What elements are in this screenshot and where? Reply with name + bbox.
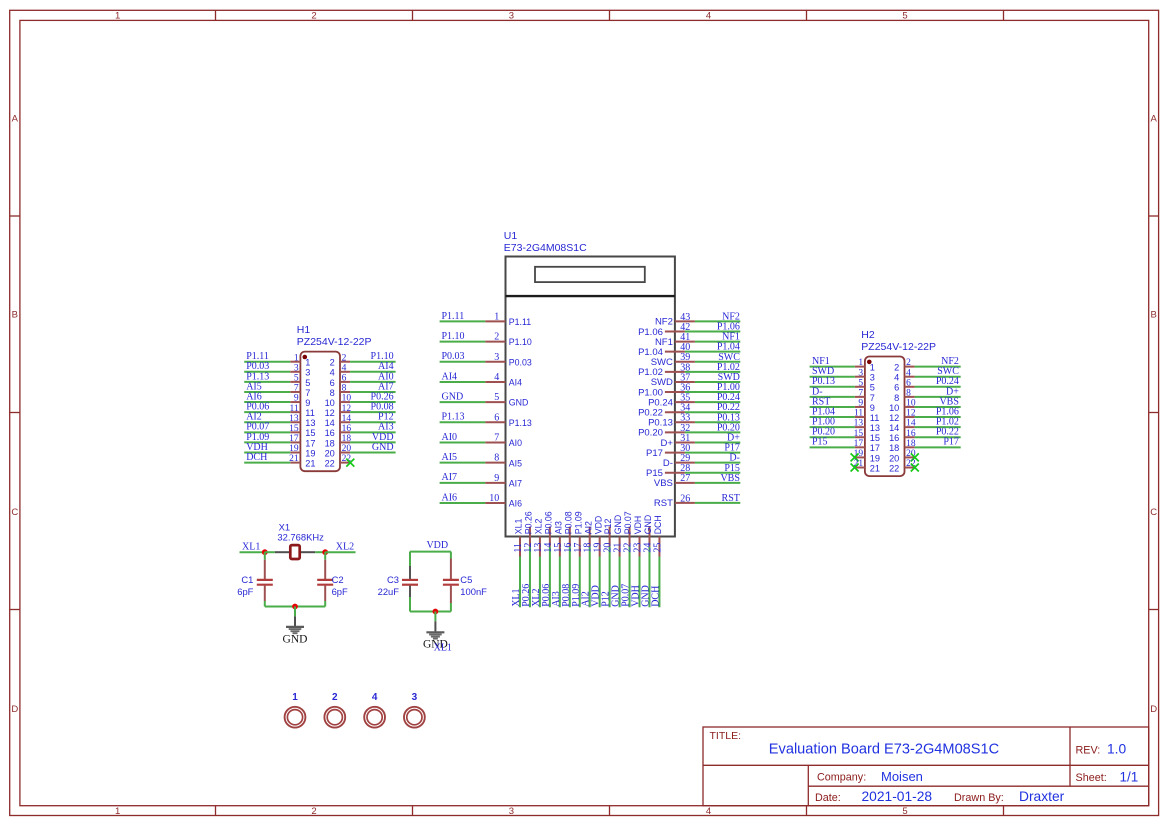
svg-text:16: 16 xyxy=(906,429,916,439)
svg-text:22: 22 xyxy=(889,463,899,473)
wire net P0.20 from U1 pin 32 xyxy=(685,431,740,433)
wire C3 to C5 bottom xyxy=(410,611,451,613)
wire net D+ from H2 pin 8 xyxy=(915,396,961,398)
svg-text:6: 6 xyxy=(342,373,347,383)
H2 pin 16 xyxy=(905,436,915,438)
svg-text:4: 4 xyxy=(706,806,711,817)
svg-text:5: 5 xyxy=(902,806,907,817)
wire net VBS from U1 pin 27 xyxy=(695,482,740,484)
svg-text:GND: GND xyxy=(372,442,394,453)
U1 pin 18 xyxy=(589,527,591,547)
wire net P1.00 to H2 pin 13 xyxy=(810,426,855,428)
H2 pin 20 xyxy=(905,456,915,458)
svg-text:DCH: DCH xyxy=(653,515,663,534)
wire net P0.26 from U1 pin 12 xyxy=(529,547,531,608)
svg-text:P15: P15 xyxy=(812,437,828,448)
svg-text:AI0: AI0 xyxy=(509,438,522,448)
svg-text:32.768KHz: 32.768KHz xyxy=(277,532,324,543)
svg-text:P0.08: P0.08 xyxy=(563,511,573,534)
wire net P15 to H2 pin 17 xyxy=(810,446,855,448)
svg-text:8: 8 xyxy=(330,388,335,398)
svg-text:2: 2 xyxy=(311,806,316,817)
svg-text:VDH: VDH xyxy=(633,516,643,535)
wire net VBS from H2 pin 10 xyxy=(915,406,961,408)
svg-text:6pF: 6pF xyxy=(237,586,253,597)
svg-text:8: 8 xyxy=(906,388,911,398)
crystal X1 xyxy=(265,545,325,559)
wire net P0.22 from U1 pin 34 xyxy=(685,411,740,413)
wire net P15 from U1 pin 28 xyxy=(685,472,740,474)
svg-text:D: D xyxy=(11,704,18,715)
U1 pin 17 xyxy=(579,537,581,557)
svg-text:B: B xyxy=(1151,310,1157,321)
svg-text:2021-01-28: 2021-01-28 xyxy=(862,789,933,804)
wire net AI3 from H1 pin 16 xyxy=(350,431,396,433)
svg-text:AI5: AI5 xyxy=(442,452,458,463)
H2 pin 19 xyxy=(855,456,865,458)
wire net P0.07 to H1 pin 15 xyxy=(244,431,290,433)
svg-text:9: 9 xyxy=(494,473,499,484)
svg-text:VDD: VDD xyxy=(426,540,448,551)
svg-text:5: 5 xyxy=(494,392,499,403)
junction node XL1/C1/X1 xyxy=(262,549,268,555)
svg-text:100nF: 100nF xyxy=(460,586,487,597)
svg-text:A: A xyxy=(1151,113,1158,124)
H1 pin 10 xyxy=(340,401,350,403)
wire net AI7 from H1 pin 8 xyxy=(350,391,396,393)
svg-text:C2: C2 xyxy=(332,574,344,585)
H2 pin 17 xyxy=(855,446,865,448)
H2 pin 1 marker dot xyxy=(867,360,872,365)
wire net P17 from H2 pin 18 xyxy=(915,446,961,448)
H1 pin 3 xyxy=(290,371,300,373)
wire net P0.26 from H1 pin 10 xyxy=(350,401,396,403)
svg-text:P1.13: P1.13 xyxy=(442,412,465,423)
svg-text:P1.13: P1.13 xyxy=(509,418,532,428)
svg-text:3: 3 xyxy=(858,368,863,378)
svg-text:17: 17 xyxy=(305,438,315,448)
no-connect X on H2 pin 21 xyxy=(851,464,859,472)
svg-text:7: 7 xyxy=(858,388,863,398)
H2 pin 21 xyxy=(855,467,865,469)
H2 pin 10 xyxy=(905,406,915,408)
svg-text:1: 1 xyxy=(305,358,310,368)
H1 pin 19 xyxy=(290,452,300,454)
H1 pin 16 xyxy=(340,431,350,433)
svg-text:RST: RST xyxy=(722,493,740,504)
H2 pin 22 xyxy=(905,467,915,469)
wire net P1.04 from U1 pin 40 xyxy=(685,351,740,353)
H1 pin 2 xyxy=(340,361,350,363)
H1 pin 17 xyxy=(290,441,300,443)
H2 pin 14 xyxy=(905,426,915,428)
svg-text:AI7: AI7 xyxy=(442,472,458,483)
wire net D- to H2 pin 7 xyxy=(810,396,855,398)
svg-text:2: 2 xyxy=(332,692,338,703)
svg-text:6pF: 6pF xyxy=(332,586,348,597)
svg-text:P17: P17 xyxy=(646,448,663,459)
U1 pin 15 xyxy=(559,537,561,557)
svg-text:9: 9 xyxy=(870,403,875,413)
svg-text:19: 19 xyxy=(870,453,880,463)
wire XL1 to crystal/C1 node xyxy=(240,551,265,553)
wire net P1.00 from U1 pin 36 xyxy=(685,391,740,393)
svg-text:14: 14 xyxy=(889,423,899,433)
svg-text:17: 17 xyxy=(289,434,299,444)
svg-text:11: 11 xyxy=(854,409,863,419)
wire net DCH from U1 pin 25 xyxy=(658,557,660,608)
H2 pin 7 xyxy=(855,396,865,398)
H1 pin 9 xyxy=(290,401,300,403)
H1 pin 11 xyxy=(290,411,300,413)
H1 pin 18 xyxy=(340,441,350,443)
wire crystal node to XL2 xyxy=(325,551,355,553)
svg-text:9: 9 xyxy=(305,398,310,408)
svg-text:12: 12 xyxy=(325,408,335,418)
H2 pin 2 xyxy=(905,366,915,368)
svg-text:20: 20 xyxy=(325,448,335,458)
svg-text:AI4: AI4 xyxy=(442,371,458,382)
U1 pin 26 xyxy=(675,502,695,504)
svg-text:3: 3 xyxy=(494,352,499,363)
wire net P12 from U1 pin 20 xyxy=(609,547,611,608)
U1 pin 3 xyxy=(485,361,505,363)
wire net VDH from U1 pin 23 xyxy=(639,557,641,608)
U1 pin 6 xyxy=(485,421,505,423)
U1 pin 16 xyxy=(569,527,571,547)
svg-text:6: 6 xyxy=(906,378,911,388)
wire net AI4 from H1 pin 4 xyxy=(350,371,396,373)
H2 pin 4 xyxy=(905,376,915,378)
wire net VDD from U1 pin 19 xyxy=(599,557,601,608)
mounting hole pad 3 xyxy=(404,707,425,728)
H1 pin 5 xyxy=(290,381,300,383)
wire net P0.22 from H2 pin 16 xyxy=(915,436,961,438)
U1 pin 31 xyxy=(675,441,695,443)
svg-text:13: 13 xyxy=(854,419,864,429)
svg-text:8: 8 xyxy=(494,453,499,464)
wire net AI4 to U1 pin 4 xyxy=(440,381,486,383)
svg-text:10: 10 xyxy=(342,394,352,404)
wire net NF2 from H2 pin 2 xyxy=(915,366,961,368)
wire net AI2 to H1 pin 13 xyxy=(244,421,290,423)
svg-text:XL1: XL1 xyxy=(242,541,260,552)
H2 pin 12 xyxy=(905,416,915,418)
svg-text:E73-2G4M08S1C: E73-2G4M08S1C xyxy=(504,242,587,254)
svg-text:GND: GND xyxy=(442,392,464,403)
wire net P1.09 from U1 pin 17 xyxy=(579,557,581,608)
svg-text:16: 16 xyxy=(342,424,352,434)
svg-text:18: 18 xyxy=(889,443,899,453)
svg-text:GND: GND xyxy=(613,515,623,535)
H1 pin 14 xyxy=(340,421,350,423)
H1 pin 13 xyxy=(290,421,300,423)
svg-text:Sheet:: Sheet: xyxy=(1076,772,1107,784)
U1 pin 19 xyxy=(599,537,601,557)
svg-text:27: 27 xyxy=(680,473,690,484)
H1 pin 1 xyxy=(290,361,300,363)
svg-text:15: 15 xyxy=(305,428,315,438)
svg-text:13: 13 xyxy=(305,418,315,428)
svg-text:P0.06: P0.06 xyxy=(543,511,553,534)
U1 pin 28 xyxy=(665,472,685,474)
wire net P0.08 from H1 pin 12 xyxy=(350,411,396,413)
svg-text:3: 3 xyxy=(305,368,310,378)
svg-text:21: 21 xyxy=(289,454,299,464)
wire C1 to C2 bottom xyxy=(265,606,325,608)
wire net P0.20 to H2 pin 15 xyxy=(810,436,855,438)
H2 pin 15 xyxy=(855,436,865,438)
svg-text:5: 5 xyxy=(902,10,907,21)
wire net AI3 from U1 pin 15 xyxy=(559,557,561,608)
U1 pin 25 xyxy=(658,537,660,557)
svg-text:2: 2 xyxy=(906,358,911,368)
svg-text:C1: C1 xyxy=(241,574,253,585)
svg-text:AI3: AI3 xyxy=(553,521,563,534)
U1 pin 13 xyxy=(539,537,541,557)
svg-text:P1.10: P1.10 xyxy=(509,337,532,347)
svg-text:10: 10 xyxy=(489,493,499,504)
svg-text:B: B xyxy=(12,310,18,321)
H2 pin 6 xyxy=(905,386,915,388)
svg-text:1.0: 1.0 xyxy=(1107,742,1127,757)
svg-text:7: 7 xyxy=(870,393,875,403)
svg-text:3: 3 xyxy=(509,806,514,817)
U1 pin 40 xyxy=(665,351,685,353)
svg-text:4: 4 xyxy=(342,363,347,373)
mounting hole pad 2 xyxy=(324,707,345,728)
svg-text:PZ254V-12-22P: PZ254V-12-22P xyxy=(297,336,372,348)
wire net P0.13 from U1 pin 33 xyxy=(695,421,740,423)
svg-text:13: 13 xyxy=(870,423,880,433)
U1 pin 34 xyxy=(665,411,685,413)
svg-text:18: 18 xyxy=(325,438,335,448)
svg-text:AI4: AI4 xyxy=(509,378,522,388)
svg-text:Date:: Date: xyxy=(815,792,841,804)
svg-text:16: 16 xyxy=(889,433,899,443)
wire net D- from U1 pin 29 xyxy=(695,462,740,464)
svg-text:P17: P17 xyxy=(943,437,959,448)
svg-text:5: 5 xyxy=(870,383,875,393)
svg-text:2: 2 xyxy=(894,363,899,373)
H1 pin 8 xyxy=(340,391,350,393)
svg-text:H1: H1 xyxy=(297,324,311,336)
svg-text:10: 10 xyxy=(325,398,335,408)
H2 pin 13 xyxy=(855,426,865,428)
svg-text:14: 14 xyxy=(325,418,335,428)
svg-text:Draxter: Draxter xyxy=(1019,789,1065,804)
svg-text:C: C xyxy=(11,507,18,518)
capacitor C2 xyxy=(317,552,333,606)
U1 pin 29 xyxy=(675,462,695,464)
svg-text:Company:: Company: xyxy=(817,772,866,784)
U1 pin 14 xyxy=(549,527,551,547)
svg-text:P1.11: P1.11 xyxy=(442,311,465,322)
ground symbol (VDD circuit) xyxy=(426,612,444,639)
U1 pin 33 xyxy=(675,421,695,423)
wire net P1.02 from H2 pin 14 xyxy=(915,426,961,428)
wire net NF1 to H2 pin 1 xyxy=(810,366,855,368)
wire net P1.02 from U1 pin 38 xyxy=(685,371,740,373)
wire net NF1 from U1 pin 41 xyxy=(695,341,740,343)
wire net VDD from H1 pin 18 xyxy=(350,441,396,443)
svg-text:13: 13 xyxy=(289,414,299,424)
H1 pin 7 xyxy=(290,391,300,393)
svg-text:20: 20 xyxy=(342,444,352,454)
svg-text:15: 15 xyxy=(854,429,864,439)
H1 pin 6 xyxy=(340,381,350,383)
U1 pin 4 xyxy=(485,381,505,383)
svg-text:H2: H2 xyxy=(861,329,875,341)
wire net NF2 from U1 pin 43 xyxy=(695,320,740,322)
wire net P0.03 to H1 pin 3 xyxy=(244,371,290,373)
svg-text:XL1: XL1 xyxy=(514,519,524,535)
svg-text:6: 6 xyxy=(330,378,335,388)
svg-text:REV:: REV: xyxy=(1076,744,1101,756)
svg-text:26: 26 xyxy=(680,493,690,504)
svg-text:8: 8 xyxy=(342,384,347,394)
svg-text:11: 11 xyxy=(289,404,298,414)
U1 pin 27 xyxy=(675,482,695,484)
no-connect X on H2 pin 19 xyxy=(851,453,859,461)
H2 pin 8 xyxy=(905,396,915,398)
svg-text:XL2: XL2 xyxy=(336,541,354,552)
capacitor C1 xyxy=(257,552,273,606)
wire VDD top rail xyxy=(410,551,451,553)
svg-text:15: 15 xyxy=(870,433,880,443)
svg-text:10: 10 xyxy=(889,403,899,413)
wire net AI0 to U1 pin 7 xyxy=(440,441,486,443)
wire net SWC from H2 pin 4 xyxy=(915,376,961,378)
wire net RST from U1 pin 26 xyxy=(695,502,740,504)
junction node gnd stem xyxy=(292,604,298,610)
svg-text:AI2: AI2 xyxy=(583,521,593,534)
wire net GND from U1 pin 24 xyxy=(648,547,650,608)
svg-text:14: 14 xyxy=(906,419,916,429)
svg-text:4: 4 xyxy=(906,368,911,378)
mounting hole pad 1 xyxy=(285,707,306,728)
title block xyxy=(703,727,1149,806)
svg-text:2: 2 xyxy=(330,358,335,368)
wire net P12 from H1 pin 14 xyxy=(350,421,396,423)
svg-text:3: 3 xyxy=(509,10,514,21)
U1 pin 36 xyxy=(665,391,685,393)
svg-text:4: 4 xyxy=(330,368,335,378)
U1 pin 42 xyxy=(665,330,685,332)
U1 pin 35 xyxy=(675,401,695,403)
wire net AI0 from H1 pin 6 xyxy=(350,381,396,383)
wire net GND to U1 pin 5 xyxy=(440,401,486,403)
wire net P0.06 to H1 pin 11 xyxy=(244,411,290,413)
svg-text:3: 3 xyxy=(412,692,418,703)
wire net P0.13 to H2 pin 5 xyxy=(810,386,855,388)
svg-text:3: 3 xyxy=(294,363,299,373)
H1 pin 15 xyxy=(290,431,300,433)
wire net P1.11 to H1 pin 1 xyxy=(244,361,290,363)
svg-text:AI5: AI5 xyxy=(509,458,522,468)
svg-text:1: 1 xyxy=(870,363,875,373)
U1 pin 41 xyxy=(675,341,695,343)
wire net P1.13 to H1 pin 5 xyxy=(244,381,290,383)
svg-text:18: 18 xyxy=(342,434,352,444)
svg-text:AI6: AI6 xyxy=(442,492,458,503)
wire net P1.11 to U1 pin 1 xyxy=(440,320,486,322)
svg-text:Moisen: Moisen xyxy=(881,769,923,784)
svg-text:18: 18 xyxy=(906,439,916,449)
junction node gnd stem 2 xyxy=(433,609,439,615)
svg-text:11: 11 xyxy=(305,408,315,418)
svg-text:P0.03: P0.03 xyxy=(509,357,532,367)
svg-text:AI7: AI7 xyxy=(509,478,522,488)
U1 pin 11 xyxy=(519,537,521,557)
H1 pin 1 marker dot xyxy=(303,355,308,360)
U1 pin 39 xyxy=(675,361,695,363)
svg-text:5: 5 xyxy=(858,378,863,388)
no-connect X on H2 pin 20 xyxy=(911,453,919,461)
svg-text:Drawn By:: Drawn By: xyxy=(954,792,1004,804)
wire net XL2 from U1 pin 13 xyxy=(539,557,541,608)
capacitor C3 xyxy=(402,552,418,612)
no-connect X on H1 pin 22 xyxy=(346,459,354,467)
wire net P0.03 to U1 pin 3 xyxy=(440,361,486,363)
capacitor C5 xyxy=(443,552,459,612)
wire net XL1 from U1 pin 11 xyxy=(519,557,521,608)
wire net AI7 to U1 pin 9 xyxy=(440,482,486,484)
svg-text:RST: RST xyxy=(654,498,673,509)
U1 pin 37 xyxy=(675,381,695,383)
U1 pin 9 xyxy=(485,482,505,484)
svg-text:XL1: XL1 xyxy=(434,642,452,653)
ground symbol (crystal circuit) xyxy=(286,607,304,634)
svg-text:9: 9 xyxy=(294,394,299,404)
wire net GND from U1 pin 21 xyxy=(619,557,621,608)
wire net SWD to H2 pin 3 xyxy=(810,376,855,378)
H1 pin 4 xyxy=(340,371,350,373)
svg-text:12: 12 xyxy=(889,413,899,423)
H1 pin 22 xyxy=(340,462,350,464)
svg-text:2: 2 xyxy=(342,353,347,363)
svg-text:7: 7 xyxy=(294,384,299,394)
H2 pin 1 xyxy=(855,366,865,368)
H2 pin 3 xyxy=(855,376,865,378)
svg-text:22uF: 22uF xyxy=(378,586,400,597)
H2 pin 18 xyxy=(905,446,915,448)
svg-text:AI6: AI6 xyxy=(509,499,522,509)
U1 pin 38 xyxy=(665,371,685,373)
U1 pin 43 xyxy=(675,320,695,322)
svg-text:C: C xyxy=(1150,507,1157,518)
svg-text:1: 1 xyxy=(115,10,120,21)
H1 pin 21 xyxy=(290,462,300,464)
wire net AI2 from U1 pin 18 xyxy=(589,547,591,608)
wire net AI5 to U1 pin 8 xyxy=(440,462,486,464)
svg-text:2: 2 xyxy=(494,332,499,343)
svg-text:12: 12 xyxy=(906,409,916,419)
H1 pin 20 xyxy=(340,452,350,454)
svg-text:1: 1 xyxy=(292,692,298,703)
svg-text:20: 20 xyxy=(889,453,899,463)
wire net P0.06 from U1 pin 14 xyxy=(549,547,551,608)
svg-text:7: 7 xyxy=(494,432,499,443)
svg-text:Evaluation Board E73-2G4M08S1C: Evaluation Board E73-2G4M08S1C xyxy=(769,742,999,758)
svg-text:15: 15 xyxy=(289,424,299,434)
svg-text:C5: C5 xyxy=(460,574,472,585)
wire net AI6 to U1 pin 10 xyxy=(440,502,486,504)
svg-text:3: 3 xyxy=(870,373,875,383)
no-connect X on H2 pin 22 xyxy=(911,464,919,472)
svg-text:22: 22 xyxy=(325,459,335,469)
svg-text:1: 1 xyxy=(494,311,499,322)
